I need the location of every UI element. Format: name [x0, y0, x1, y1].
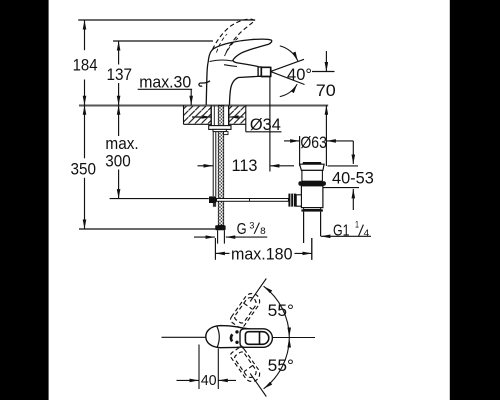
- 40-53 dimension vertical: [352, 141, 354, 164]
- 40-53 extension lines: [328, 165, 359, 167]
- svg-text:max.30: max.30: [139, 73, 191, 92]
- linkage rod joint tick: [249, 199, 251, 202]
- max.180 extension lines: [214, 238, 216, 260]
- temperature crescent marker: [231, 334, 232, 341]
- waste locknut dark band: [301, 209, 323, 211]
- dimension 113 line right: [270, 165, 294, 167]
- spout cap crescent: [217, 327, 219, 348]
- G3/8 left arrow: [194, 236, 215, 238]
- lower 55 radial line: [250, 374, 266, 397]
- lever motion arcs (dashed): [217, 34, 228, 53]
- svg-text:Ø34: Ø34: [250, 115, 281, 134]
- top reference line (184): [78, 19, 255, 21]
- horizontal pop-up linkage rod: [217, 199, 289, 202]
- waste O-ring: [298, 181, 326, 186]
- svg-text:G: G: [237, 221, 247, 238]
- svg-text:3: 3: [249, 220, 254, 231]
- deck hatching right: [229, 106, 246, 124]
- waste locknut: [304, 208, 321, 210]
- pull rod clamp: [209, 196, 216, 203]
- svg-text:8: 8: [260, 226, 266, 237]
- lever pill divider: [259, 332, 261, 344]
- deck hatching left: [184, 106, 212, 124]
- aerator: [261, 67, 270, 76]
- supply hose end: [218, 230, 225, 243]
- 350 bottom reference line: [79, 228, 215, 230]
- dashed lever positions top view: [229, 290, 263, 384]
- lever rotated down 55 deg (dashed): [229, 346, 263, 385]
- swing horizontal reference: [272, 337, 315, 339]
- svg-text:113: 113: [232, 156, 258, 175]
- Ø63 extension line left: [299, 136, 301, 166]
- svg-text:55°: 55°: [268, 356, 294, 375]
- svg-text:max.180: max.180: [231, 245, 293, 264]
- dimension 137 vertical line: [118, 41, 120, 65]
- dimension 184 vertical line: [84, 20, 86, 50]
- waste body: [301, 186, 323, 208]
- pull rod inside shank: [213, 105, 215, 125]
- spray angle arcs with arrows: [280, 46, 298, 61]
- pop-up pull rod: [213, 132, 216, 197]
- dimension 113 line left: [198, 165, 214, 167]
- upper swing arc: [264, 286, 290, 337]
- max.180 dimension line: [215, 252, 229, 254]
- waste tailpipe: [303, 212, 305, 243]
- max.300 bottom reference line: [110, 198, 209, 200]
- Ø34 leader: [245, 124, 247, 132]
- max.30 leader underline and arrow: [138, 88, 192, 90]
- tailpipe centre extension: [311, 238, 313, 260]
- braided supply hose (checkered): [218, 106, 223, 226]
- svg-text:55°: 55°: [268, 301, 294, 320]
- faucet body outline: [206, 39, 272, 105]
- G1 1/4 label leader: [321, 235, 371, 237]
- pop-up rod knob on body: [199, 81, 210, 86]
- lever pill inner: [245, 332, 268, 345]
- svg-text:184: 184: [73, 55, 98, 74]
- 55 degree swing geometry: [250, 279, 315, 397]
- dimension 40 bottom: [177, 345, 237, 390]
- waste flange cup: [300, 164, 325, 170]
- lever pill outer: [240, 329, 272, 348]
- Ø63 dimension arrows: [284, 140, 300, 142]
- hose guide step: [224, 132, 228, 135]
- lower swing arc: [264, 338, 290, 389]
- 40 degree spray angle lines: [271, 46, 305, 97]
- svg-text:max.: max.: [105, 134, 138, 153]
- temperature dot hot: [235, 330, 238, 333]
- svg-text:4: 4: [364, 228, 370, 239]
- supply hose connector nut: [215, 225, 225, 230]
- mounting deck surface line: [79, 104, 328, 106]
- lever rotated up 55 deg (dashed): [229, 290, 263, 329]
- 113 extension line: [269, 77, 271, 172]
- svg-text:1: 1: [355, 219, 359, 230]
- svg-text:40: 40: [201, 372, 217, 389]
- right black bar: [450, 0, 500, 400]
- mounting nut: [213, 129, 226, 131]
- svg-text:Ø63: Ø63: [300, 133, 327, 152]
- spout underside and body right edge: [230, 76, 259, 105]
- lever raised position (dashed): [213, 19, 255, 55]
- Ø34 arrows: [192, 116, 211, 118]
- rod tip below clamp: [213, 203, 216, 207]
- svg-text:70: 70: [316, 81, 336, 100]
- upper 55 radial line: [250, 279, 266, 302]
- spout axis reference line: [162, 336, 207, 338]
- svg-text:G1: G1: [333, 223, 350, 240]
- svg-text:137: 137: [107, 65, 133, 84]
- svg-text:40°: 40°: [287, 65, 312, 84]
- top-view body outline: [206, 326, 249, 348]
- shank tube walls: [210, 105, 212, 125]
- body shoulder line: [224, 65, 237, 67]
- left black bar: [0, 0, 49, 400]
- dimension 70 vertical line: [325, 51, 327, 72]
- cartridge joint line: [210, 60, 233, 61]
- svg-text:300: 300: [105, 151, 130, 170]
- dimension 350 vertical line: [84, 105, 86, 158]
- G3/8 label leader: [226, 236, 267, 238]
- temperature dot cold: [235, 341, 238, 344]
- dimension max.300 vertical line: [118, 105, 120, 136]
- aerator outlet reference line (70 top): [312, 71, 335, 73]
- mounting washer: [209, 126, 231, 130]
- svg-text:40-53: 40-53: [332, 169, 374, 188]
- rod knurled adjuster: [288, 194, 296, 207]
- deck section end edges: [183, 105, 185, 124]
- deck bottom line: [184, 123, 212, 125]
- reference line (137): [113, 40, 213, 42]
- svg-text:350: 350: [71, 160, 97, 179]
- waste flange top: [302, 162, 322, 165]
- waste neck: [302, 170, 323, 181]
- spout connector: [258, 67, 261, 76]
- rod boss: [296, 195, 301, 206]
